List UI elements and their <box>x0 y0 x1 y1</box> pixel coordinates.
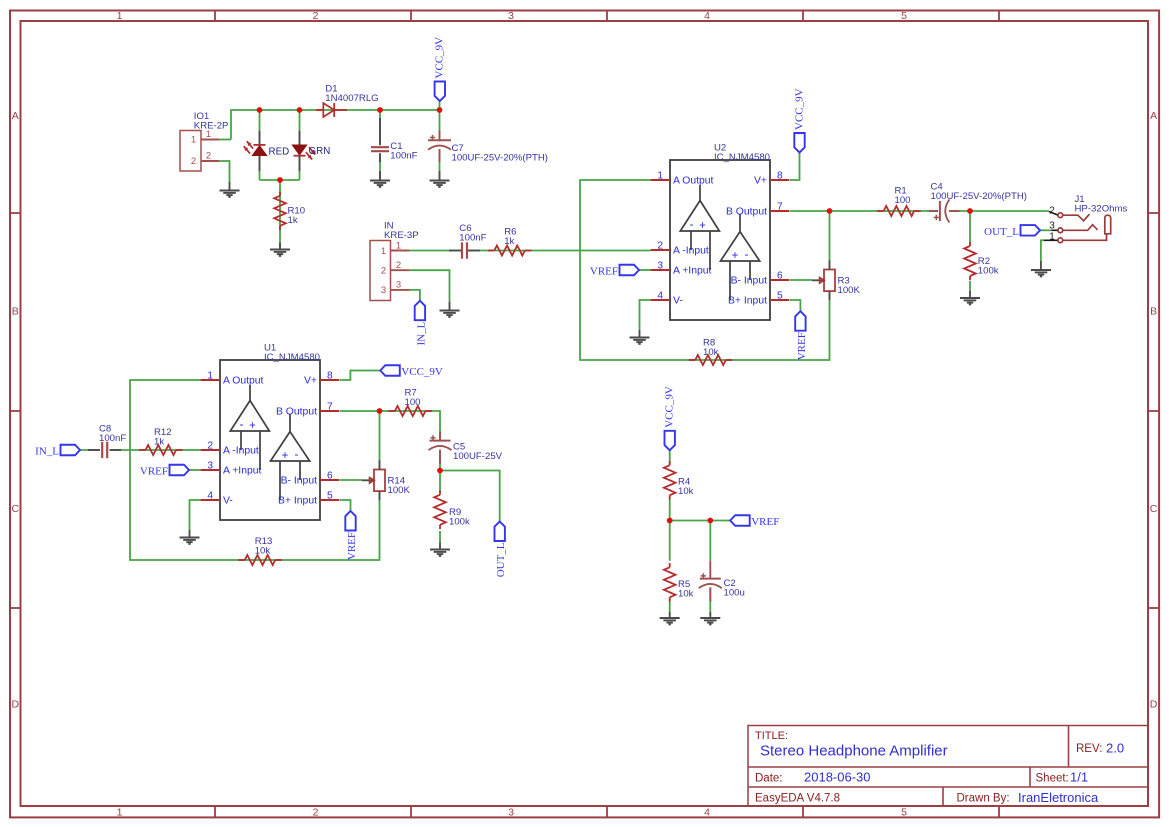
svg-text:10k: 10k <box>678 486 694 497</box>
svg-text:100nF: 100nF <box>99 433 126 444</box>
svg-text:A: A <box>1150 110 1157 122</box>
svg-text:VCC_9V: VCC_9V <box>793 88 805 130</box>
svg-text:1: 1 <box>191 135 196 146</box>
svg-text:V-: V- <box>673 296 683 307</box>
svg-text:100UF-25V-20%(PTH): 100UF-25V-20%(PTH) <box>931 191 1028 202</box>
svg-text:-: - <box>745 247 749 261</box>
svg-text:4: 4 <box>207 491 213 502</box>
svg-text:B Output: B Output <box>726 207 767 218</box>
svg-text:OUT_L: OUT_L <box>984 226 1019 238</box>
svg-text:V+: V+ <box>754 176 767 187</box>
svg-text:3: 3 <box>657 261 663 272</box>
svg-text:HP-32Ohms: HP-32Ohms <box>1075 204 1128 215</box>
svg-text:IC_NJM4580: IC_NJM4580 <box>714 152 770 163</box>
svg-text:1k: 1k <box>288 215 298 226</box>
svg-text:5: 5 <box>901 807 907 819</box>
svg-text:7: 7 <box>777 202 783 213</box>
svg-text:3: 3 <box>381 285 386 296</box>
svg-text:2: 2 <box>313 10 319 22</box>
svg-text:VREF: VREF <box>796 332 808 360</box>
svg-text:100nF: 100nF <box>390 151 417 162</box>
svg-text:D: D <box>12 698 20 710</box>
svg-text:1k: 1k <box>504 236 514 247</box>
svg-text:1: 1 <box>207 371 213 382</box>
svg-text:+: + <box>732 250 739 262</box>
svg-text:4: 4 <box>657 291 663 302</box>
svg-text:1: 1 <box>117 10 123 22</box>
svg-text:2: 2 <box>657 241 663 252</box>
svg-text:B: B <box>12 305 19 317</box>
svg-text:5: 5 <box>901 10 907 22</box>
svg-text:-: - <box>240 417 244 431</box>
svg-text:A Output: A Output <box>223 376 264 387</box>
svg-text:VCC_9V: VCC_9V <box>434 37 446 79</box>
svg-text:A -Input: A -Input <box>673 246 709 257</box>
svg-text:2.0: 2.0 <box>1106 741 1124 756</box>
svg-text:1N4007RLG: 1N4007RLG <box>325 93 378 104</box>
svg-text:B Output: B Output <box>276 407 317 418</box>
svg-text:100UF-25V: 100UF-25V <box>453 451 503 462</box>
svg-text:2: 2 <box>191 156 196 167</box>
svg-text:10k: 10k <box>703 347 719 358</box>
svg-text:100: 100 <box>895 195 911 206</box>
svg-text:VCC_9V: VCC_9V <box>401 366 443 378</box>
svg-text:Stereo Headphone Amplifier: Stereo Headphone Amplifier <box>760 743 948 760</box>
svg-text:2: 2 <box>381 266 386 277</box>
svg-text:8: 8 <box>777 171 783 182</box>
svg-text:1: 1 <box>117 807 123 819</box>
svg-text:1: 1 <box>396 240 401 251</box>
svg-text:2018-06-30: 2018-06-30 <box>804 770 871 785</box>
svg-text:IC_NJM4580: IC_NJM4580 <box>264 352 320 363</box>
svg-text:A: A <box>12 110 19 122</box>
svg-text:B+ Input: B+ Input <box>728 296 767 307</box>
svg-text:GRN: GRN <box>309 146 331 157</box>
svg-text:IN_L: IN_L <box>415 321 427 345</box>
svg-text:2: 2 <box>207 441 213 452</box>
svg-text:+: + <box>282 450 289 462</box>
svg-text:KRE-2P: KRE-2P <box>194 121 229 132</box>
svg-text:D: D <box>1150 698 1158 710</box>
svg-text:8: 8 <box>327 371 333 382</box>
svg-text:OUT_L: OUT_L <box>495 542 507 577</box>
svg-text:B- Input: B- Input <box>731 276 768 287</box>
svg-text:KRE-3P: KRE-3P <box>384 230 419 241</box>
svg-text:2: 2 <box>396 260 401 271</box>
svg-text:A +Input: A +Input <box>223 466 262 477</box>
svg-text:3: 3 <box>508 10 514 22</box>
svg-text:+: + <box>249 420 256 432</box>
svg-text:C: C <box>1150 503 1158 515</box>
svg-text:5: 5 <box>777 291 783 302</box>
svg-text:VREF: VREF <box>590 266 618 278</box>
svg-text:1/1: 1/1 <box>1070 770 1088 785</box>
svg-text:100nF: 100nF <box>459 232 486 243</box>
svg-text:-: - <box>295 447 299 461</box>
svg-text:REV:: REV: <box>1076 743 1102 755</box>
svg-text:A +Input: A +Input <box>673 266 712 277</box>
svg-text:A -Input: A -Input <box>223 446 259 457</box>
svg-text:EasyEDA V4.7.8: EasyEDA V4.7.8 <box>755 793 840 805</box>
svg-text:1: 1 <box>657 171 663 182</box>
svg-text:Date:: Date: <box>755 773 783 785</box>
svg-text:TITLE:: TITLE: <box>755 730 788 742</box>
svg-text:10k: 10k <box>255 545 271 556</box>
svg-text:B+ Input: B+ Input <box>278 496 317 507</box>
svg-text:+: + <box>699 220 706 232</box>
svg-text:Sheet:: Sheet: <box>1036 773 1069 785</box>
svg-text:RED: RED <box>269 146 290 157</box>
svg-text:2: 2 <box>313 807 319 819</box>
svg-text:3: 3 <box>207 461 213 472</box>
svg-text:Drawn By:: Drawn By: <box>957 793 1010 805</box>
svg-text:VCC_9V: VCC_9V <box>664 386 676 428</box>
svg-text:1: 1 <box>381 246 386 257</box>
svg-text:V-: V- <box>223 496 233 507</box>
svg-text:100K: 100K <box>388 485 411 496</box>
svg-text:4: 4 <box>704 10 710 22</box>
svg-text:3: 3 <box>396 280 401 291</box>
svg-text:-: - <box>690 217 694 231</box>
svg-text:6: 6 <box>327 471 333 482</box>
svg-text:100: 100 <box>405 397 421 408</box>
svg-text:V+: V+ <box>304 376 317 387</box>
svg-text:100UF-25V-20%(PTH): 100UF-25V-20%(PTH) <box>452 153 549 164</box>
svg-text:2: 2 <box>206 151 211 162</box>
svg-text:A Output: A Output <box>673 176 714 187</box>
svg-text:100k: 100k <box>978 265 999 276</box>
svg-text:B: B <box>1150 305 1157 317</box>
svg-text:C: C <box>12 503 20 515</box>
svg-text:6: 6 <box>777 271 783 282</box>
svg-text:100u: 100u <box>724 588 745 599</box>
svg-text:10k: 10k <box>678 589 694 600</box>
svg-text:IN_L: IN_L <box>35 446 59 458</box>
svg-text:100K: 100K <box>838 285 861 296</box>
svg-text:VREF: VREF <box>140 466 168 478</box>
svg-text:VREF: VREF <box>346 532 358 560</box>
svg-text:4: 4 <box>704 807 710 819</box>
svg-text:IranEletronica: IranEletronica <box>1018 790 1099 805</box>
svg-text:3: 3 <box>508 807 514 819</box>
svg-text:VREF: VREF <box>751 516 779 528</box>
svg-text:5: 5 <box>327 491 333 502</box>
svg-text:1k: 1k <box>154 437 164 448</box>
svg-text:7: 7 <box>327 402 333 413</box>
svg-text:B- Input: B- Input <box>281 476 318 487</box>
svg-text:100k: 100k <box>449 517 470 528</box>
